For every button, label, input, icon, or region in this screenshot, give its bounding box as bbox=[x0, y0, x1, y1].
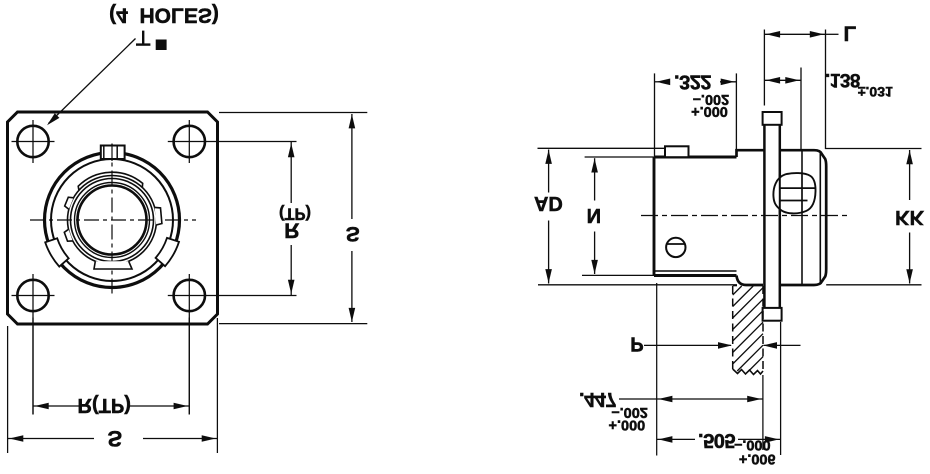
svg-text:L: L bbox=[843, 21, 856, 44]
svg-text:.322: .322 bbox=[674, 71, 711, 93]
svg-text:P: P bbox=[630, 333, 643, 355]
svg-text:+.006: +.006 bbox=[739, 451, 776, 467]
svg-text:R(TP): R(TP) bbox=[78, 394, 131, 416]
svg-text:N: N bbox=[587, 204, 601, 226]
svg-text:.505: .505 bbox=[698, 429, 735, 451]
svg-text:S: S bbox=[107, 426, 122, 451]
svg-text:R: R bbox=[284, 219, 299, 242]
svg-text:AD: AD bbox=[534, 192, 563, 214]
svg-text:KK: KK bbox=[895, 206, 924, 228]
svg-text:–.000: –.000 bbox=[734, 437, 770, 453]
svg-text:(4 HOLES): (4 HOLES) bbox=[109, 4, 219, 27]
svg-text:+.000: +.000 bbox=[691, 103, 728, 119]
svg-text:S: S bbox=[346, 222, 360, 245]
svg-text:.138: .138 bbox=[825, 69, 860, 90]
svg-text:±.031: ±.031 bbox=[858, 84, 893, 100]
svg-text:+.000: +.000 bbox=[609, 416, 646, 432]
